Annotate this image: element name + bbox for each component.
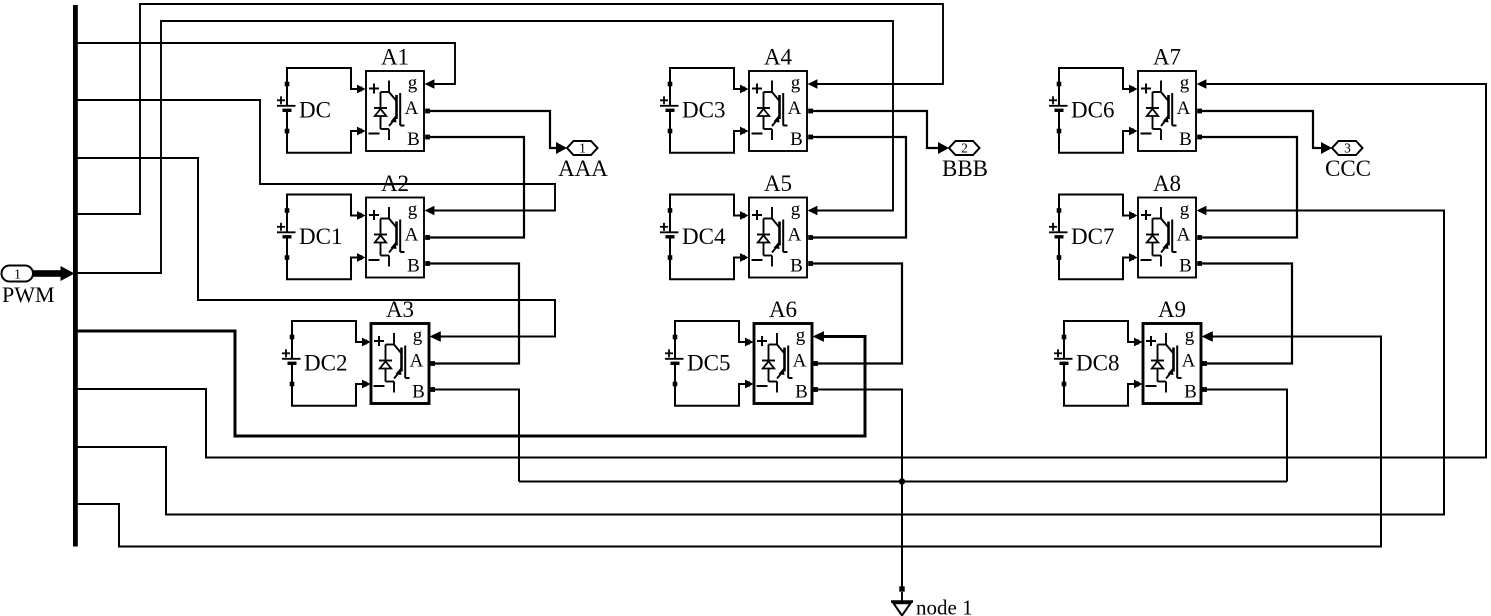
svg-text:DC2: DC2 [304, 351, 347, 376]
svg-text:A8: A8 [1153, 171, 1181, 196]
svg-text:2: 2 [961, 141, 968, 156]
svg-text:A6: A6 [769, 297, 797, 322]
svg-text:A5: A5 [764, 171, 792, 196]
svg-text:DC5: DC5 [687, 351, 730, 376]
svg-text:g: g [1185, 325, 1195, 346]
svg-text:g: g [408, 73, 418, 94]
svg-text:A: A [1177, 98, 1191, 119]
svg-text:g: g [408, 199, 418, 220]
svg-text:g: g [413, 325, 423, 346]
svg-text:B: B [790, 129, 803, 150]
svg-text:A7: A7 [1153, 45, 1181, 70]
svg-text:A: A [788, 225, 802, 246]
svg-text:g: g [1180, 73, 1190, 94]
svg-text:A9: A9 [1158, 297, 1186, 322]
svg-text:DC: DC [299, 98, 331, 123]
svg-text:B: B [1179, 129, 1192, 150]
svg-text:DC1: DC1 [299, 224, 342, 249]
svg-text:DC4: DC4 [682, 224, 726, 249]
svg-text:B: B [1184, 382, 1197, 403]
svg-text:g: g [796, 325, 806, 346]
svg-text:node 1: node 1 [916, 596, 973, 616]
svg-text:1: 1 [579, 141, 586, 156]
svg-text:DC6: DC6 [1071, 98, 1114, 123]
svg-text:BBB: BBB [942, 156, 988, 181]
svg-text:g: g [1180, 199, 1190, 220]
svg-text:DC8: DC8 [1076, 351, 1119, 376]
svg-text:A: A [793, 351, 807, 372]
svg-text:A1: A1 [381, 45, 409, 70]
svg-text:3: 3 [1344, 141, 1351, 156]
svg-text:A: A [405, 98, 419, 119]
svg-text:g: g [791, 73, 801, 94]
svg-text:A: A [1177, 225, 1191, 246]
svg-text:PWM: PWM [2, 282, 55, 307]
svg-text:A: A [788, 98, 802, 119]
svg-text:A4: A4 [764, 45, 793, 70]
svg-text:B: B [412, 382, 425, 403]
svg-text:CCC: CCC [1325, 156, 1371, 181]
svg-text:g: g [791, 199, 801, 220]
svg-text:A: A [405, 225, 419, 246]
svg-text:B: B [407, 256, 420, 277]
svg-text:A: A [1182, 351, 1196, 372]
svg-text:A: A [410, 351, 424, 372]
svg-text:DC3: DC3 [682, 98, 725, 123]
svg-text:B: B [795, 382, 808, 403]
svg-text:1: 1 [14, 267, 21, 282]
svg-text:B: B [790, 256, 803, 277]
svg-text:B: B [407, 129, 420, 150]
svg-text:DC7: DC7 [1071, 224, 1114, 249]
svg-text:B: B [1179, 256, 1192, 277]
svg-text:AAA: AAA [558, 156, 608, 181]
